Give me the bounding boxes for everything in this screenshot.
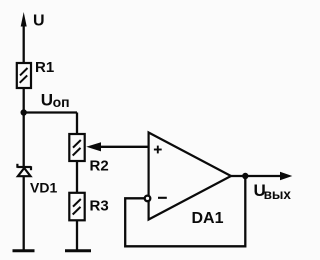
svg-text:R2: R2 (90, 158, 109, 175)
svg-text:R3: R3 (90, 198, 109, 215)
svg-text:R1: R1 (35, 59, 54, 76)
svg-text:DA1: DA1 (192, 210, 224, 227)
svg-text:VD1: VD1 (30, 180, 57, 196)
svg-text:вых: вых (264, 187, 292, 202)
svg-text:U: U (33, 13, 45, 30)
svg-text:оп: оп (53, 94, 70, 110)
svg-text:U: U (41, 91, 53, 110)
